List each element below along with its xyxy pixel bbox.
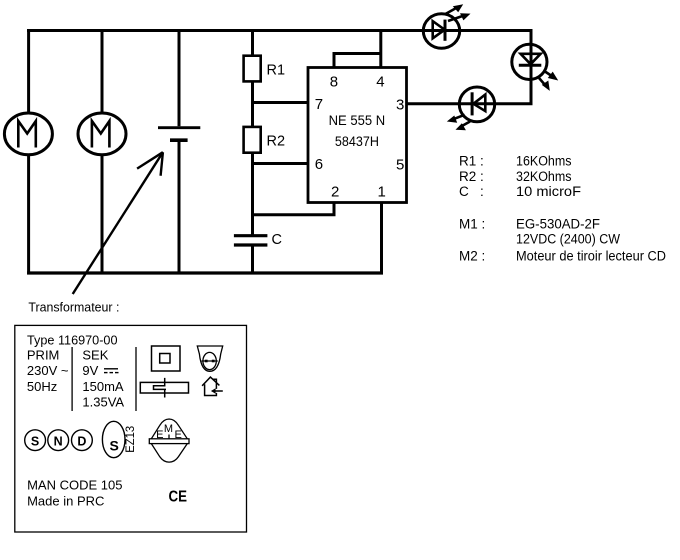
svg-text:5: 5	[396, 156, 404, 173]
symbol fail-safe transformer	[140, 378, 188, 398]
motor M2	[78, 113, 126, 155]
wire node to pin 7	[251, 101, 308, 104]
svg-text:R1 :: R1 :	[459, 154, 484, 169]
svg-text:8: 8	[330, 74, 338, 91]
wire top to R1	[251, 29, 254, 56]
svg-text:CE: CE	[169, 489, 188, 506]
svg-text:S: S	[110, 438, 119, 454]
svg-text:1: 1	[378, 183, 386, 200]
svg-text:S: S	[31, 434, 39, 448]
svg-text:R1: R1	[267, 63, 286, 79]
svg-text:16KOhms: 16KOhms	[516, 154, 572, 169]
nameplate divider 2	[135, 347, 137, 411]
wire pin 3 to LED D3	[407, 102, 533, 105]
arrow pointer to transformer	[73, 152, 163, 294]
approval mark N	[48, 430, 69, 451]
svg-text:N: N	[54, 434, 63, 448]
svg-text:M: M	[164, 423, 173, 435]
svg-text:Type 116970-00: Type 116970-00	[27, 332, 118, 347]
approval mark KEMA	[149, 419, 189, 462]
resistor R1	[244, 56, 261, 82]
svg-text:Transformateur :: Transformateur :	[28, 300, 119, 315]
svg-text:6: 6	[315, 156, 323, 173]
wire pin 4 to top rail	[379, 31, 382, 68]
svg-text:2: 2	[331, 183, 339, 200]
svg-text:NE 555 N: NE 555 N	[329, 112, 386, 128]
resistor R2	[244, 127, 261, 153]
svg-text:58437H: 58437H	[335, 133, 379, 149]
wire M1 to bottom rail	[27, 155, 30, 275]
svg-text:C :: C :	[459, 184, 484, 199]
svg-text:10 microF: 10 microF	[516, 184, 581, 199]
wire left branch M1	[27, 29, 30, 114]
svg-text:12VDC (2400) CW: 12VDC (2400) CW	[516, 232, 620, 247]
svg-text:D: D	[77, 434, 86, 448]
wire bottom rail	[27, 271, 383, 274]
wire branch M2	[101, 29, 104, 114]
svg-text:SEK: SEK	[82, 348, 108, 363]
wire battery top	[178, 29, 181, 126]
LED D3 arrows	[447, 115, 470, 130]
wire M2 to bottom rail	[101, 155, 104, 275]
svg-text:EG-530AD-2F: EG-530AD-2F	[516, 216, 600, 231]
svg-text:4: 4	[376, 74, 384, 91]
svg-text:M2 :: M2 :	[459, 248, 485, 263]
svg-text:Moteur de tiroir lecteur CD: Moteur de tiroir lecteur CD	[516, 248, 666, 263]
transformer nameplate box	[15, 325, 247, 532]
wire capacitor to bottom rail	[251, 247, 254, 275]
svg-text:C: C	[272, 232, 282, 248]
wire pin 1 to bottom rail	[380, 202, 383, 273]
symbol thermal cutout bell	[197, 346, 222, 371]
svg-text:230V ~: 230V ~	[27, 363, 69, 378]
symbol class II double square	[152, 346, 181, 371]
wire LED D2 branch vertical	[530, 31, 533, 104]
wire pin 8 jumper	[334, 54, 381, 68]
svg-text:1.35VA: 1.35VA	[82, 394, 124, 409]
svg-text:E: E	[175, 429, 182, 441]
wire node to pin 6	[251, 162, 308, 165]
LED D1 arrows	[445, 4, 471, 21]
LED D2 arrows	[539, 71, 558, 91]
svg-text:7: 7	[315, 96, 323, 113]
svg-text:E: E	[156, 429, 163, 441]
wire pin 2	[253, 202, 335, 215]
svg-text:3: 3	[396, 96, 404, 113]
LED D1	[423, 14, 459, 48]
battery B1	[158, 126, 200, 129]
LED D3	[459, 87, 494, 122]
svg-text:Made in PRC: Made in PRC	[27, 493, 104, 508]
svg-text:PRIM: PRIM	[27, 348, 60, 363]
svg-text:32KOhms: 32KOhms	[516, 169, 572, 184]
LED D2	[512, 44, 547, 79]
capacitor C	[234, 234, 268, 237]
approval mark D	[72, 430, 93, 451]
approval mark S	[25, 430, 46, 451]
svg-text:EZ13: EZ13	[125, 426, 137, 453]
op-amp U1 IC body	[308, 68, 407, 203]
svg-text:50Hz: 50Hz	[27, 379, 57, 394]
svg-text:MAN CODE 105: MAN CODE 105	[27, 478, 122, 493]
svg-text:R2: R2	[267, 134, 286, 150]
wire top rail	[27, 29, 533, 32]
DC symbol	[104, 369, 119, 373]
svg-text:R2 :: R2 :	[459, 169, 484, 184]
wire R1 to R2	[251, 81, 254, 127]
nameplate divider 1	[71, 347, 73, 411]
svg-text:9V: 9V	[82, 363, 98, 378]
symbol indoor use house	[202, 377, 223, 395]
wire battery bottom	[178, 142, 181, 275]
wire R2 to capacitor	[251, 153, 254, 236]
approval mark FI S	[102, 421, 125, 457]
motor M1	[4, 113, 52, 155]
svg-text:150mA: 150mA	[82, 379, 124, 394]
svg-text:M1 :: M1 :	[459, 216, 485, 231]
